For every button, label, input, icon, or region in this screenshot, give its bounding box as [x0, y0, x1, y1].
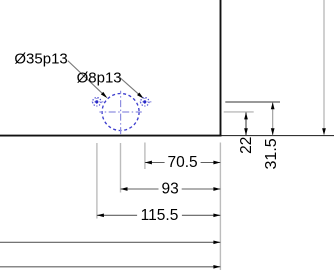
- svg-text:Ø8p13: Ø8p13: [77, 70, 122, 87]
- svg-text:115.5: 115.5: [141, 207, 179, 224]
- svg-text:Ø35p13: Ø35p13: [14, 51, 67, 68]
- svg-text:70.5: 70.5: [168, 154, 198, 171]
- svg-text:31.5: 31.5: [263, 138, 280, 169]
- svg-text:93: 93: [161, 181, 178, 198]
- svg-text:22: 22: [238, 137, 255, 154]
